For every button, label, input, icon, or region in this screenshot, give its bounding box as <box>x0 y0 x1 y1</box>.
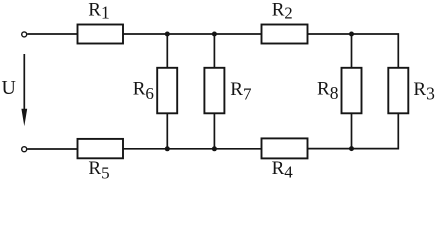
resistor R5 <box>78 139 124 158</box>
resistor R4 <box>262 138 308 158</box>
voltage arrow U <box>21 54 27 126</box>
resistor R2 <box>262 25 308 44</box>
svg-text:U: U <box>2 77 17 99</box>
resistor R1 <box>78 25 124 44</box>
node A (top of R6) <box>165 32 170 37</box>
wire R3 down to bottom-right corner <box>308 113 399 148</box>
svg-text:R8: R8 <box>317 79 339 103</box>
wire R2 to top-right corner <box>308 34 399 68</box>
resistor R6 <box>157 68 177 114</box>
wire R8 down to node F <box>351 113 353 149</box>
wire R5 to R4 (bottom bus through nodes D and E) <box>123 148 262 150</box>
svg-text:R3: R3 <box>413 79 435 104</box>
node F (bottom of R8) <box>349 146 354 151</box>
node D (bottom of R6) <box>165 146 170 151</box>
terminal (bottom left input) <box>22 147 27 152</box>
wire R7 down to node E <box>213 113 215 149</box>
wire top terminal to R1 <box>27 33 77 35</box>
svg-text:R1: R1 <box>88 0 109 23</box>
resistor R8 <box>342 68 362 114</box>
resistor R3 <box>388 68 408 114</box>
wire R6 down to node D <box>166 113 168 149</box>
wire node C down to R8 <box>351 34 353 68</box>
resistor R7 <box>204 68 224 114</box>
svg-text:R2: R2 <box>272 0 293 23</box>
wire node A down to R6 <box>166 34 168 68</box>
wire bottom terminal to R5 <box>27 148 77 150</box>
node B (top of R7) <box>212 32 217 37</box>
wire node B down to R7 <box>213 34 215 68</box>
terminal (top left input) <box>22 32 27 37</box>
node E (bottom of R7) <box>212 146 217 151</box>
wire R1 to R2 (top bus through nodes A and B) <box>123 33 262 35</box>
wire top-right corner down to R3 <box>397 68 399 69</box>
node C (top of R8) <box>349 32 354 37</box>
